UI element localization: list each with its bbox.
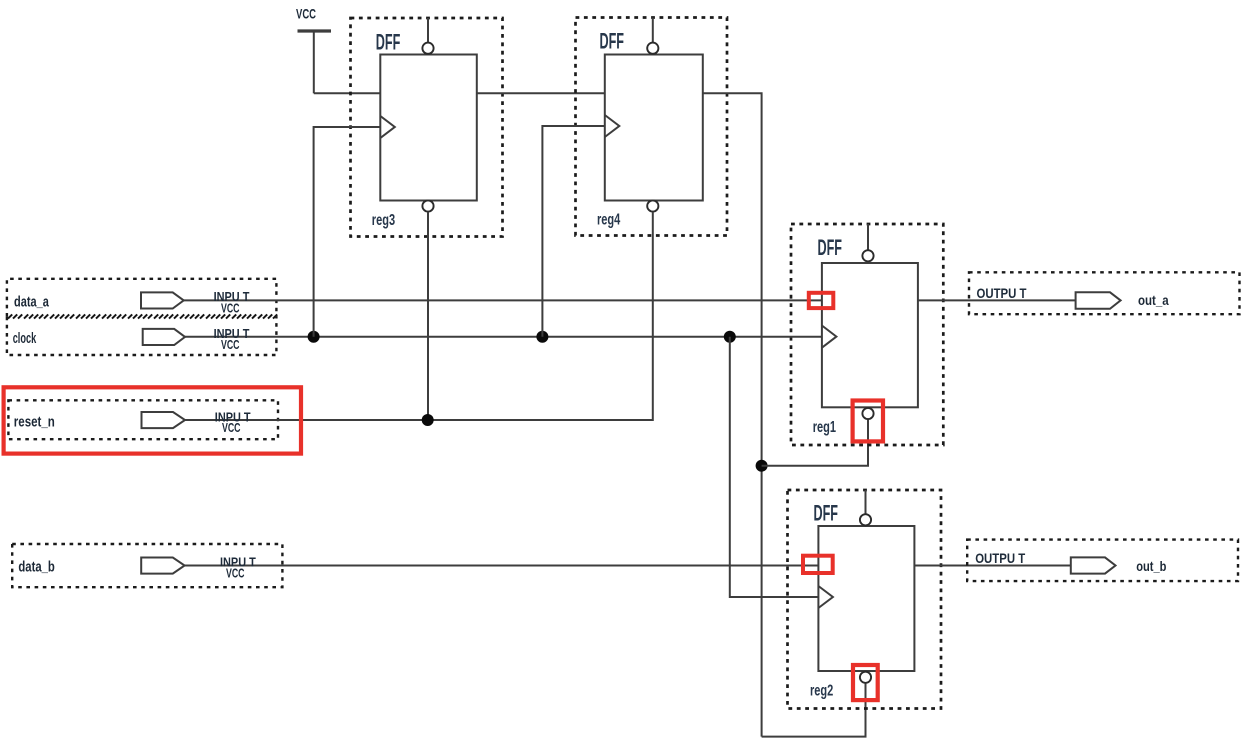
output pin out_a (969, 272, 1240, 314)
highlight box reg1 D input (809, 293, 834, 308)
highlight box reg1 CLRN (853, 401, 883, 442)
out_a dashed box (969, 272, 1240, 314)
reg3 PRN stub (427, 18, 429, 43)
reg1 CLRN bubble (862, 408, 873, 419)
svg-text:DFF: DFF (818, 235, 843, 260)
svg-text:VCC: VCC (226, 565, 245, 580)
DFF reg1 (791, 224, 943, 445)
reg3 clock triangle (380, 116, 395, 138)
reg4 clock triangle (605, 115, 620, 137)
wire data_a to reg1 D (184, 299, 822, 301)
input pin reset_n (8, 400, 278, 439)
svg-text:data_b: data_b (18, 558, 54, 575)
clock pin symbol (143, 329, 185, 345)
svg-text:reg1: reg1 (813, 419, 836, 436)
reg1 PRN bubble (862, 250, 873, 261)
DFF reg3 (351, 18, 503, 420)
reg4 dashed boundary (576, 18, 728, 236)
svg-text:VCC: VCC (296, 6, 316, 22)
reg4 PRN bubble (647, 43, 658, 54)
svg-text:DFF: DFF (814, 501, 839, 526)
svg-text:DFF: DFF (376, 30, 401, 55)
highlight box reg2 CLRN (853, 665, 878, 700)
data_a pin symbol (141, 292, 184, 308)
power symbol VCC (296, 6, 331, 94)
junction clock/reg4 branch (536, 331, 548, 343)
input pin data_a (7, 279, 277, 317)
wire reset_n to reg4 CLRN (185, 212, 653, 420)
wire clock to reg1 clk (185, 336, 822, 338)
reg1 body (822, 263, 918, 407)
junction clock/reg2 branch (724, 331, 736, 343)
reg1 PRN stub (867, 224, 869, 250)
reg2 dashed boundary (788, 490, 942, 709)
reg2 PRN bubble (860, 514, 871, 525)
reg3 CLRN bubble (422, 200, 433, 211)
reg2 PRN stub (865, 490, 867, 514)
svg-text:reg3: reg3 (372, 212, 395, 229)
data_b dashed box (12, 544, 282, 587)
svg-text:out_a: out_a (1138, 292, 1169, 308)
DFF reg4 (576, 18, 728, 236)
svg-text:reg2: reg2 (810, 683, 833, 700)
svg-text:DFF: DFF (600, 29, 625, 54)
reg4 CLRN bubble (647, 200, 658, 211)
reg3 dashed boundary (351, 18, 503, 237)
data_a dashed box (7, 279, 277, 317)
reset_n pin symbol (142, 412, 186, 428)
svg-text:OUTPU T: OUTPU T (975, 550, 1025, 566)
reg4 PRN stub (652, 18, 654, 43)
wire branch to reg1 CLRN (762, 419, 868, 466)
wire VCC to reg3 D input (314, 92, 381, 94)
reg3 body (380, 55, 477, 201)
reg2 clock triangle (818, 586, 833, 608)
highlight box reg2 D input (803, 556, 833, 573)
reg4 body (605, 55, 703, 201)
reset_n dashed box (8, 400, 278, 439)
output pin out_b (967, 540, 1238, 582)
wire reg1 Q to out_a (918, 299, 1076, 301)
wire reg2 Q to out_b (914, 565, 1070, 567)
highlight box reset_n (4, 387, 301, 453)
reg2 body (818, 526, 914, 671)
wire bottom run to reg2 CLRN (762, 683, 866, 737)
wire clock branch to reg3 clk (314, 127, 381, 337)
junction on clrn net (756, 460, 768, 472)
wire reg3 Q to reg4 D (477, 92, 605, 94)
net reg4 Q (synchronized reset) right and down (703, 93, 762, 736)
junction reset/reg3 CLRN (422, 414, 434, 426)
reg2 CLRN bubble (860, 672, 871, 683)
wire data_b to reg2 D (185, 565, 819, 567)
input pin clock (7, 317, 277, 355)
out_a pin symbol (1076, 292, 1121, 309)
svg-text:VCC: VCC (222, 420, 241, 435)
svg-text:reset_n: reset_n (14, 413, 55, 430)
svg-text:clock: clock (13, 330, 37, 347)
reg1 dashed boundary (791, 224, 943, 445)
wire clock branch to reg4 clk (542, 126, 604, 337)
svg-text:out_b: out_b (1136, 558, 1166, 574)
wire clock branch to reg2 clk (730, 337, 819, 597)
data_b pin symbol (141, 558, 184, 574)
svg-text:VCC: VCC (221, 300, 240, 315)
reg3 PRN bubble (422, 43, 433, 54)
svg-text:reg4: reg4 (597, 212, 620, 229)
reg3 CLRN wire down to reset net (427, 212, 429, 420)
out_b pin symbol (1071, 557, 1116, 573)
svg-text:data_a: data_a (14, 294, 49, 311)
DFF reg2 (788, 490, 942, 709)
input pin data_b (12, 544, 282, 587)
divider hatch between data_a and clock boxes (8, 314, 277, 318)
out_b dashed box (967, 540, 1238, 582)
svg-text:VCC: VCC (221, 337, 240, 352)
svg-text:OUTPU T: OUTPU T (977, 285, 1027, 301)
reg1 clock triangle (822, 326, 837, 348)
junction clock/reg3 branch (308, 331, 320, 343)
clock dashed box (7, 317, 277, 355)
